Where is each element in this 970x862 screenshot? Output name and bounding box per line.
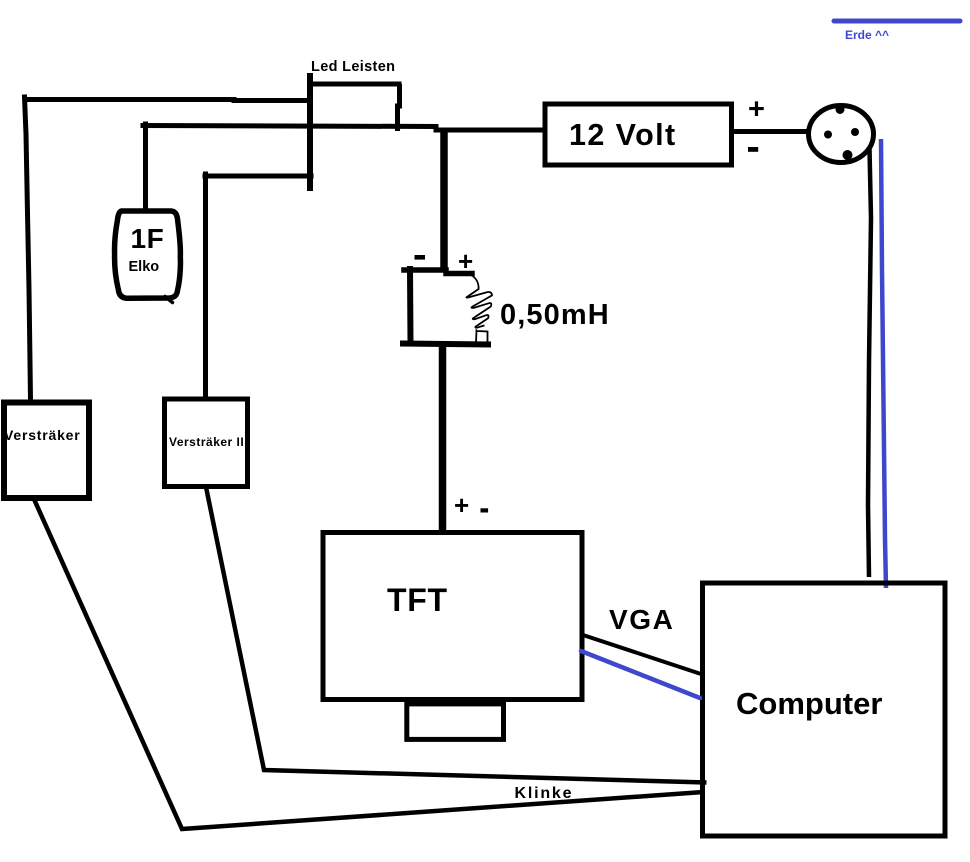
capacitor C1 1F Elko	[115, 211, 181, 298]
wire Verstraeker I to Klinke	[34, 498, 704, 829]
wire left vertical	[25, 97, 31, 400]
label - plug negative	[748, 147, 758, 152]
Verstraeker I box	[4, 403, 89, 499]
svg-text:Elko: Elko	[129, 259, 160, 275]
wire inductor top vertical	[440, 128, 448, 268]
svg-text:Erde ^^: Erde ^^	[845, 28, 889, 42]
Led Leisten box	[310, 76, 400, 188]
svg-text:1F: 1F	[131, 223, 165, 254]
pen tick at capacitor bottom right	[165, 297, 173, 303]
Computer box	[703, 583, 946, 836]
wire main horizontal bus	[143, 126, 545, 131]
wire Verstraeker II vertical	[203, 174, 208, 399]
svg-text:+: +	[458, 246, 473, 276]
wire inductor to TFT vertical	[439, 344, 447, 532]
svg-text:Versträker II: Versträker II	[169, 435, 244, 449]
VGA blue wire	[581, 651, 700, 698]
inductor L1	[403, 269, 492, 345]
svg-text:TFT: TFT	[387, 582, 448, 618]
svg-text:VGA: VGA	[609, 604, 674, 635]
Verstraeker II box	[165, 399, 248, 487]
svg-text:Klinke: Klinke	[515, 785, 574, 802]
label - TFT polarity negative	[481, 508, 489, 512]
VGA black wire	[583, 635, 704, 675]
wire capacitor drop	[143, 124, 148, 211]
TFT stand	[407, 704, 504, 740]
wire top-left horizontal	[24, 100, 311, 101]
wire Verstraeker II to Klinke	[206, 487, 707, 783]
Schuko plug P1	[809, 105, 874, 163]
wire plug to computer black vertical	[868, 149, 871, 577]
wire 12V to plug	[734, 129, 808, 134]
svg-text:Led Leisten: Led Leisten	[311, 59, 395, 75]
svg-text:Versträker I: Versträker I	[4, 427, 90, 443]
svg-text:0,50mH: 0,50mH	[500, 299, 610, 331]
svg-text:+: +	[748, 94, 765, 126]
svg-text:12 Volt: 12 Volt	[569, 118, 677, 152]
Erde bar	[834, 19, 960, 24]
svg-text:Computer: Computer	[736, 686, 882, 721]
label - inductor negative	[415, 255, 426, 260]
wire Erde blue vertical	[881, 139, 886, 588]
svg-text:+: +	[454, 490, 469, 520]
TFT box	[323, 533, 582, 700]
wire third horizontal	[205, 174, 311, 179]
12 Volt box	[545, 104, 732, 165]
